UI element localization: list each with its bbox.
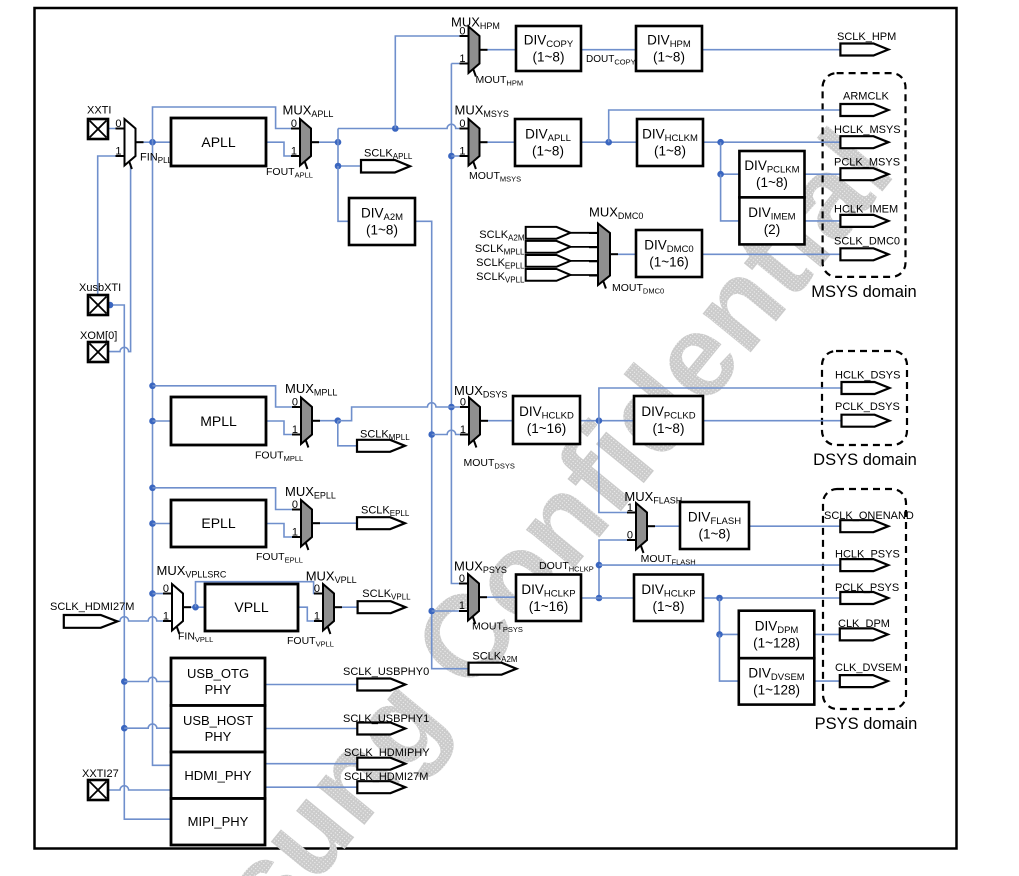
svg-text:(1~8): (1~8) xyxy=(653,599,685,614)
svg-text:FOUTMPLL: FOUTMPLL xyxy=(255,450,303,464)
wire DIV_PCLKD to PCLK_DSYS arrow xyxy=(703,420,842,422)
junction MPLL bus DSYS rail xyxy=(448,404,455,411)
mux MUX_MPLL xyxy=(301,398,312,445)
svg-text:(1~16): (1~16) xyxy=(527,421,566,436)
wire SCLKAPLL rail to MUX_MSYS in0 xyxy=(338,124,469,128)
wire SCLK_HDMI27M input to MUX_VPLLSRC in1 xyxy=(117,617,172,621)
net SCLK_HDMI27M input arrow xyxy=(64,615,118,628)
wire DOUT_HCLKP riser to MUX_FLASH in0 xyxy=(599,540,636,598)
svg-text:1: 1 xyxy=(163,611,169,623)
divider DIV_HPM xyxy=(636,26,702,71)
svg-text:MUXHPM: MUXHPM xyxy=(451,15,500,32)
svg-text:MOUTDMC0: MOUTDMC0 xyxy=(612,282,664,296)
svg-text:1: 1 xyxy=(459,600,465,612)
junction FIN_PLL node xyxy=(149,139,156,146)
wire DOUT_COPY net xyxy=(581,49,636,51)
wire riser to HCLK_DSYS arrow xyxy=(599,388,842,421)
mux MUX_EPLL xyxy=(301,500,312,547)
svg-text:PHY: PHY xyxy=(205,682,232,697)
wire USB_HOST to SCLK_USBPHY1 arrow xyxy=(265,728,357,730)
svg-text:0: 0 xyxy=(459,26,465,38)
net SCLK_HPM arrow xyxy=(840,44,888,56)
svg-text:MOUTMSYS: MOUTMSYS xyxy=(469,170,521,184)
svg-text:DSYS domain: DSYS domain xyxy=(813,451,917,469)
wire EPLL feedback rail to MUX_EPLL in0 xyxy=(153,488,302,510)
net SCLK_MPLL arrow xyxy=(357,440,405,452)
wire XOM select to input mux xyxy=(108,164,131,352)
svg-text:1: 1 xyxy=(314,611,320,623)
wire XXTI to input mux in0 xyxy=(108,128,125,130)
wire HDMI_PHY to SCLK_HDMIPHY arrow xyxy=(265,763,357,765)
junction A2M bus PSYS in1 xyxy=(428,608,435,615)
svg-text:PHY: PHY xyxy=(205,729,232,744)
svg-text:MIPI_PHY: MIPI_PHY xyxy=(188,814,249,829)
mux MUX_VPLL xyxy=(323,584,334,631)
mux MUX_DMC0 xyxy=(598,224,610,286)
divider DIV_PCLKD xyxy=(634,396,703,444)
divider DIV_HCLKD xyxy=(513,396,580,444)
net CLK_DPM arrow xyxy=(840,628,888,640)
svg-text:SCLK_HPM: SCLK_HPM xyxy=(837,31,896,43)
net SCLK_HDMI27M out arrow xyxy=(357,781,405,793)
wire FIN to MPLL input xyxy=(153,420,172,422)
svg-text:SCLK_HDMI27M: SCLK_HDMI27M xyxy=(50,601,134,613)
svg-text:MUXDMC0: MUXDMC0 xyxy=(589,205,643,222)
net ARMCLK arrow xyxy=(840,104,888,116)
wire rail riser xyxy=(337,129,339,143)
junction FIN bus MPLL input xyxy=(149,418,156,425)
wire DIV_APLL to DIV_HCLKM xyxy=(581,141,637,143)
svg-text:DOUTCOPY: DOUTCOPY xyxy=(586,54,636,67)
divider DIV_APLL xyxy=(515,119,581,166)
mux MUX_VPLLSRC xyxy=(172,584,183,631)
wire DIV_FLASH to SCLK_ONENAND arrow xyxy=(749,525,840,527)
net SCLK_USBPHY0 arrow xyxy=(357,679,405,691)
junction ARMCLK riser xyxy=(605,139,612,146)
svg-text:(1~8): (1~8) xyxy=(756,175,788,190)
wire MUX_HPM out to DIV_COPY xyxy=(488,49,517,51)
svg-text:(1~16): (1~16) xyxy=(649,255,688,270)
wire input mux out to APLL (FIN_PLL node) xyxy=(136,141,172,143)
junction MPLL bus MSYS in1 xyxy=(448,153,455,160)
svg-text:PSYS domain: PSYS domain xyxy=(815,715,918,733)
wire MPLL out to MUX_MPLL in1 xyxy=(266,421,301,435)
junction rail to HPM xyxy=(392,125,399,132)
svg-text:1: 1 xyxy=(460,424,466,436)
wire MUX_FLASH out to DIV_FLASH xyxy=(655,525,680,527)
svg-text:HCLK_IMEM: HCLK_IMEM xyxy=(834,204,898,216)
wire VPLL out to MUX_VPLL in1 xyxy=(298,607,323,621)
wire drop to DIV_DPM xyxy=(720,598,739,634)
junction FIN bus MPLL rail xyxy=(149,383,156,390)
junction DOUT_HCLKP node xyxy=(596,595,603,602)
junction MUX_APLL out node xyxy=(335,139,342,146)
net HCLK_IMEM arrow xyxy=(840,215,888,227)
svg-text:1: 1 xyxy=(292,424,298,436)
mux input-select (XXTI/XusbXTI) xyxy=(125,119,136,166)
svg-text:SCLK_HDMIPHY: SCLK_HDMIPHY xyxy=(344,747,430,759)
wire MPLL feedback rail to MUX_MPLL in0 xyxy=(153,386,302,407)
wire APLL feedback rail to MUX_APLL in0 xyxy=(153,107,301,142)
wire XusbXTI to input mux in1 xyxy=(98,156,125,295)
svg-text:SCLKEPLL: SCLKEPLL xyxy=(361,505,410,519)
svg-text:1: 1 xyxy=(627,502,633,514)
svg-text:(1~8): (1~8) xyxy=(653,50,685,65)
junction XusbXTI USB_OTG branch xyxy=(121,678,128,685)
svg-text:(1~128): (1~128) xyxy=(753,682,800,697)
wire riser to MUX_HPM in0 xyxy=(395,36,468,129)
block USB_HOST PHY xyxy=(171,706,265,753)
net SCLK_USBPHY1 arrow xyxy=(357,723,405,735)
svg-text:SCLK_USBPHY1: SCLK_USBPHY1 xyxy=(343,713,429,725)
wire MUX_DMC0 out to DIV_DMC0 xyxy=(618,253,636,255)
wire branch to SCLK_MPLL arrow xyxy=(338,421,357,446)
DSYS domain dashed box xyxy=(822,351,907,445)
svg-text:USB_OTG: USB_OTG xyxy=(187,666,249,681)
block MPLL xyxy=(171,397,266,445)
svg-text:FINVPLL: FINVPLL xyxy=(178,631,213,645)
svg-text:SCLKMPLL: SCLKMPLL xyxy=(360,429,410,443)
svg-text:XXTI: XXTI xyxy=(87,105,111,117)
net SCLK_EPLL dmc0-input flag xyxy=(526,255,571,267)
svg-text:MPLL: MPLL xyxy=(200,413,237,429)
net SCLK_ONENAND arrow xyxy=(840,520,888,532)
wire USB_OTG to SCLK_USBPHY0 arrow xyxy=(265,684,357,686)
wire branch to DIV_PCLKM xyxy=(721,142,740,174)
svg-text:SCLKVPLL: SCLKVPLL xyxy=(362,588,411,602)
svg-text:0: 0 xyxy=(627,530,633,542)
svg-text:(1~8): (1~8) xyxy=(533,50,565,65)
wire DIV_DPM to CLK_DPM arrow xyxy=(814,633,840,635)
wire MUX_EPLL out to SCLK_EPLL arrow xyxy=(312,522,357,524)
wire EPLL out to MUX_EPLL in1 xyxy=(266,524,301,538)
svg-text:MOUTHPM: MOUTHPM xyxy=(476,74,524,88)
svg-text:MOUTDSYS: MOUTDSYS xyxy=(464,457,515,471)
svg-text:1: 1 xyxy=(459,53,465,65)
wire DIV_HCLKD out xyxy=(580,420,634,422)
wire DIV_HCLKM to HCLK_MSYS arrow xyxy=(703,141,840,143)
wire branch to USB_HOST PHY xyxy=(124,724,171,728)
mux MUX_HPM xyxy=(469,27,480,74)
svg-text:0: 0 xyxy=(314,583,320,595)
net HCLK_MSYS arrow xyxy=(840,136,888,148)
divider DIV_HCLKM xyxy=(637,119,703,166)
wire VPLL feedback rail to MUX_VPLL in0 xyxy=(196,582,324,608)
wire MUX_VPLLSRC out to VPLL (FIN_VPLL node) xyxy=(191,606,205,608)
wire MSYS in1 stub xyxy=(451,155,468,157)
svg-text:0: 0 xyxy=(115,118,121,130)
svg-text:HDMI_PHY: HDMI_PHY xyxy=(184,768,252,783)
svg-text:ARMCLK: ARMCLK xyxy=(843,91,890,103)
svg-text:SCLKAPLL: SCLKAPLL xyxy=(364,148,413,162)
junction HCLK_PSYS branch xyxy=(596,562,603,569)
svg-text:CLK_DPM: CLK_DPM xyxy=(838,618,890,630)
wire FIN bus vertical x152 xyxy=(153,142,172,765)
wire branch to SCLK_APLL arrow xyxy=(338,142,361,166)
svg-text:0: 0 xyxy=(163,583,169,595)
pad XXTI xyxy=(88,119,108,139)
svg-text:MUXVPLLSRC: MUXVPLLSRC xyxy=(157,563,227,580)
svg-text:XusbXTI: XusbXTI xyxy=(79,282,121,294)
wire branch to USB_OTG PHY xyxy=(124,677,171,681)
svg-text:PCLK_PSYS: PCLK_PSYS xyxy=(835,582,899,594)
wire MUX_DSYS out to DIV_HCLKD xyxy=(488,420,513,422)
mux MUX_PSYS xyxy=(468,574,479,621)
svg-text:0: 0 xyxy=(292,397,298,409)
wire APLL out to MUX_APLL in1 xyxy=(266,142,300,156)
svg-text:SCLKA2M: SCLKA2M xyxy=(479,229,525,243)
svg-text:SCLK_USBPHY0: SCLK_USBPHY0 xyxy=(343,666,429,678)
svg-text:1: 1 xyxy=(292,527,298,539)
svg-text:XOM[0]: XOM[0] xyxy=(80,330,117,342)
svg-text:MUXMPLL: MUXMPLL xyxy=(285,381,337,398)
svg-text:0: 0 xyxy=(459,573,465,585)
svg-text:1: 1 xyxy=(459,146,465,158)
svg-text:(1~8): (1~8) xyxy=(366,223,398,238)
wire to HCLK_PSYS arrow xyxy=(599,564,840,566)
pad XXTI27 xyxy=(88,780,108,800)
svg-text:MUXAPLL: MUXAPLL xyxy=(283,103,334,120)
svg-text:0: 0 xyxy=(459,118,465,130)
wire DIV_HCLKP16 out to DIV_HCLKP8 xyxy=(581,597,634,599)
wire A2M to MUX_DSYS in1 xyxy=(432,430,469,434)
mux MUX_MSYS xyxy=(469,119,480,166)
svg-text:0: 0 xyxy=(291,118,297,130)
svg-text:PCLK_MSYS: PCLK_MSYS xyxy=(834,157,900,169)
svg-text:(1~8): (1~8) xyxy=(654,144,686,159)
net SCLK_APLL arrow xyxy=(361,160,410,173)
svg-text:FOUTAPLL: FOUTAPLL xyxy=(266,166,313,180)
divider DIV_COPY xyxy=(516,26,581,71)
svg-text:SCLKVPLL: SCLKVPLL xyxy=(476,271,525,285)
svg-text:0: 0 xyxy=(460,397,466,409)
svg-text:(1~8): (1~8) xyxy=(653,421,685,436)
wire A2M to MUX_PSYS in1 xyxy=(432,610,468,612)
svg-text:SCLK_HDMI27M: SCLK_HDMI27M xyxy=(344,771,428,783)
svg-text:HCLK_PSYS: HCLK_PSYS xyxy=(835,549,900,561)
wire branch to DIV_IMEM xyxy=(721,174,740,221)
wire DMC0 flag lines xyxy=(570,232,598,234)
wire DIV_DVSEM to CLK_DVSEM arrow xyxy=(814,680,840,682)
block VPLL xyxy=(205,584,298,631)
junction FIN bus VPLLSRC in0 xyxy=(149,590,156,597)
junction FIN_VPLL node xyxy=(192,604,199,611)
svg-text:CLK_DVSEM: CLK_DVSEM xyxy=(835,662,902,674)
wire MUX_MSYS out to DIV_APLL xyxy=(488,141,516,143)
net SCLK_VPLL arrow xyxy=(358,601,406,613)
block USB_OTG PHY xyxy=(171,658,265,706)
svg-text:(1~16): (1~16) xyxy=(529,599,568,614)
net SCLK_DMC0 arrow xyxy=(840,248,888,260)
svg-text:FOUTVPLL: FOUTVPLL xyxy=(287,635,334,649)
net PCLK_MSYS arrow xyxy=(840,168,888,180)
wire drop to DIV_DVSEM xyxy=(720,634,739,681)
wire FIN to MUX_VPLLSRC in0 xyxy=(153,593,173,595)
junction XusbXTI USB_HOST branch xyxy=(121,725,128,732)
svg-text:1: 1 xyxy=(291,146,297,158)
svg-text:EPLL: EPLL xyxy=(201,515,235,531)
wire A2M bus from DIV_A2M out xyxy=(415,221,469,668)
junction DIV_DPM input xyxy=(716,631,723,638)
svg-text:VPLL: VPLL xyxy=(234,599,268,615)
net SCLK_VPLL dmc0-input flag xyxy=(526,269,571,281)
svg-text:MSYS domain: MSYS domain xyxy=(811,283,916,301)
wire branch to DIV_A2M input xyxy=(338,166,349,221)
net CLK_DVSEM arrow xyxy=(840,675,888,687)
net SCLK_A2M arrow xyxy=(469,663,517,675)
svg-text:(1~8): (1~8) xyxy=(532,144,564,159)
svg-text:SCLKMPLL: SCLKMPLL xyxy=(475,243,525,257)
divider DIV_DVSEM xyxy=(739,658,815,704)
junction XusbXTI node xyxy=(107,302,114,309)
svg-text:0: 0 xyxy=(292,499,298,511)
wire XusbXTI bus down to MIPI_PHY xyxy=(106,305,171,819)
wire MPLL rail to MUX_DSYS in0 xyxy=(338,403,469,421)
net SCLK_A2M dmc0-input flag xyxy=(526,227,571,239)
junction DIV_PCLKM input xyxy=(717,171,724,178)
junction A2M bus DSYS in1 xyxy=(428,431,435,438)
svg-text:(1~128): (1~128) xyxy=(753,636,800,651)
svg-text:XXTI27: XXTI27 xyxy=(82,768,119,780)
wire DIV_PCLKM to PCLK_MSYS arrow xyxy=(805,173,841,175)
wire drop to MUX_FLASH in1 xyxy=(599,421,636,513)
net SCLK_EPLL arrow xyxy=(357,517,405,529)
net HCLK_DSYS arrow xyxy=(842,382,890,394)
svg-text:FOUTEPLL: FOUTEPLL xyxy=(256,551,303,565)
net HCLK_PSYS arrow xyxy=(840,559,888,571)
wire MPLL bus vertical x451 xyxy=(451,64,468,584)
divider DIV_PCLKM xyxy=(739,151,804,197)
wire DIV_HPM to SCLK_HPM arrow xyxy=(702,49,840,51)
wire DIV_HCLKP8 out to PCLK_PSYS arrow xyxy=(703,597,840,599)
net PCLK_PSYS arrow xyxy=(840,592,888,604)
svg-text:APLL: APLL xyxy=(201,134,235,150)
op mux MUX_APLL xyxy=(300,119,311,166)
wire XXTI27 to HDMI_PHY xyxy=(108,786,171,790)
divider DIV_HCLKP (1~16) xyxy=(516,575,581,622)
net PCLK_DSYS arrow xyxy=(842,415,890,427)
junction MUX_MPLL out node xyxy=(335,417,342,424)
svg-text:SCLKEPLL: SCLKEPLL xyxy=(476,257,525,271)
junction PCLK_PSYS branch xyxy=(716,595,723,602)
svg-text:MOUTFLASH: MOUTFLASH xyxy=(641,553,696,567)
svg-text:USB_HOST: USB_HOST xyxy=(183,713,253,728)
MSYS domain dashed box xyxy=(823,73,906,277)
junction FIN bus EPLL rail xyxy=(149,485,156,492)
wire MUX_VPLL out to SCLK_VPLL arrow xyxy=(342,606,358,608)
divider DIV_DMC0 xyxy=(636,230,702,277)
mux MUX_FLASH xyxy=(636,503,647,550)
svg-text:FINPLL: FINPLL xyxy=(140,152,173,166)
wire MUX_MPLL out xyxy=(312,420,338,422)
divider DIV_DPM xyxy=(739,611,815,659)
junction SCLK_APLL branch xyxy=(335,163,342,170)
divider DIV_FLASH xyxy=(680,502,749,549)
mux MUX_DSYS xyxy=(469,398,480,445)
svg-text:HCLK_MSYS: HCLK_MSYS xyxy=(834,124,901,136)
svg-text:HCLK_DSYS: HCLK_DSYS xyxy=(835,370,900,382)
wire MPLL bus top to MUX_HPM in1 xyxy=(451,63,468,65)
wire MUX_PSYS out to DIV_HCLKP16 xyxy=(487,596,516,598)
wire HDMI_PHY to SCLK_HDMI27M arrow xyxy=(265,786,357,788)
junction DOUT_HCLKD node xyxy=(596,417,603,424)
wire DIV_IMEM to HCLK_IMEM arrow xyxy=(805,220,841,222)
divider DIV_IMEM xyxy=(739,197,804,244)
svg-text:PCLK_DSYS: PCLK_DSYS xyxy=(835,401,900,413)
wire MUX_APLL out xyxy=(311,141,338,143)
divider DIV_HCLKP (1~8) xyxy=(634,575,703,622)
block APLL xyxy=(171,118,266,166)
block HDMI_PHY xyxy=(171,752,265,799)
wire DIV_DMC0 to SCLK_DMC0 arrow xyxy=(702,253,840,255)
svg-text:1: 1 xyxy=(115,146,121,158)
net SCLK_MPLL dmc0-input flag xyxy=(526,241,571,253)
svg-text:SCLK_DMC0: SCLK_DMC0 xyxy=(834,236,900,248)
pad XOM[0] xyxy=(88,342,108,362)
pad XusbXTI xyxy=(88,295,108,315)
junction FIN bus EPLL input xyxy=(149,520,156,527)
svg-text:SCLK_ONENAND: SCLK_ONENAND xyxy=(824,510,914,522)
net SCLK_HDMIPHY arrow xyxy=(357,758,405,770)
svg-text:(2): (2) xyxy=(764,222,781,237)
PSYS domain dashed box xyxy=(823,489,906,709)
junction HCLK_MSYS branch xyxy=(717,139,724,146)
divider DIV_A2M xyxy=(349,198,415,245)
block EPLL xyxy=(171,500,266,547)
svg-text:MUXMSYS: MUXMSYS xyxy=(455,103,509,120)
svg-text:(1~8): (1~8) xyxy=(699,527,731,542)
wire FIN to EPLL input xyxy=(153,523,172,525)
block MIPI_PHY xyxy=(171,799,265,846)
wire ARMCLK riser and rail xyxy=(609,110,841,142)
